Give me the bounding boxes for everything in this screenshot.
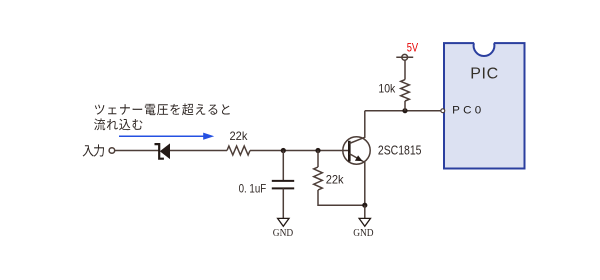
wire junction to capacitor C1 [282,151,284,181]
annotation text line 1 [95,103,230,115]
PIC pin circle [441,109,445,113]
ground symbol GND1 [278,218,289,226]
ground symbol GND2 [359,218,370,226]
wire R1 to transistor base [250,150,350,152]
svg-text:22k: 22k [230,129,249,143]
wire R3 to 5V terminal [404,60,406,79]
resistor R2 22k vertical [314,167,323,190]
wire input to zener D1 [115,150,159,152]
resistor R1 22k horizontal [227,146,250,155]
input label 入力 [83,144,104,156]
annotation text line 2 [94,118,142,130]
junction node R2 top [315,148,320,153]
zener diode D1 triangle [160,143,170,159]
junction node emitter/ground [362,203,367,208]
svg-text:P C 0: P C 0 [452,105,481,117]
wire collector to PIC pin [365,110,441,112]
wire R2 to emitter node [318,190,365,205]
svg-text:10k: 10k [378,81,396,95]
wire zener to resistor R1 [170,150,227,152]
input terminal [109,148,115,154]
svg-text:22k: 22k [326,173,345,187]
5V supply terminal [396,54,413,60]
wire R3 to junction [404,101,406,111]
blue annotation arrow [119,133,214,140]
transistor Q1 emitter arrow [355,155,363,161]
junction node R3 bottom [402,108,407,113]
transistor Q1 emitter lead [349,154,365,206]
wire capacitor to ground [282,188,284,218]
svg-text:2SC1815: 2SC1815 [378,143,422,158]
zener diode D1 cathode bar [155,144,164,159]
PIC chip notch [474,35,495,56]
transistor Q1 base bar [348,141,351,162]
transistor Q1 collector lead [349,111,365,144]
resistor R3 10k vertical [401,80,410,101]
junction node capacitor top [281,148,286,153]
svg-text:5V: 5V [407,42,419,55]
capacitor C1 plates [272,181,294,189]
svg-text:0. 1uF: 0. 1uF [239,182,267,196]
svg-text:PIC: PIC [470,65,498,82]
transistor Q1 2SC1815 circle [343,137,370,164]
wire junction to resistor R2 [317,151,319,168]
wire emitter node to ground [364,205,366,218]
svg-text:GND: GND [273,228,294,239]
svg-text:GND: GND [353,228,374,239]
PIC chip U1 body [444,43,525,168]
